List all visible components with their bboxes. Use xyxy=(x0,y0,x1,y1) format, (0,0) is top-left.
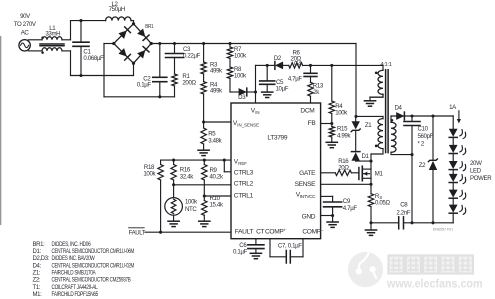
svg-text:D2,D3:: D2,D3: xyxy=(33,256,50,262)
svg-text:10µF: 10µF xyxy=(276,86,289,93)
svg-text:32.4k: 32.4k xyxy=(180,173,194,180)
svg-text:COMP–: COMP– xyxy=(302,228,323,236)
svg-text:100k: 100k xyxy=(143,171,156,178)
svg-text:GND: GND xyxy=(302,213,316,220)
svg-text:CENTRAL SEMICONDUCTOR CMR1U-06: CENTRAL SEMICONDUCTOR CMR1U-06M xyxy=(52,249,135,255)
svg-text:33mH: 33mH xyxy=(45,31,60,38)
svg-text:DIODES INC. BAV20W: DIODES INC. BAV20W xyxy=(52,256,96,262)
svg-text:LT3799: LT3799 xyxy=(267,135,287,142)
svg-text:CENTRAL SEMICONDUCTOR CMR1U-02: CENTRAL SEMICONDUCTOR CMR1U-02M xyxy=(52,263,135,269)
svg-text:100k: 100k xyxy=(335,110,348,117)
svg-text:Z2:: Z2: xyxy=(33,278,41,284)
svg-text:CT: CT xyxy=(256,228,264,235)
svg-text:M1: M1 xyxy=(375,171,384,178)
svg-text:15.4k: 15.4k xyxy=(210,201,224,208)
svg-text:FAIRCHILD SMBJ170A: FAIRCHILD SMBJ170A xyxy=(52,271,96,277)
svg-text:20W: 20W xyxy=(470,160,482,167)
svg-text:20Ω: 20Ω xyxy=(338,165,349,172)
svg-text:NTC: NTC xyxy=(185,206,197,213)
svg-text:100k: 100k xyxy=(234,53,247,60)
svg-text:DN6557 F01: DN6557 F01 xyxy=(433,228,453,232)
svg-text:TO 270V: TO 270V xyxy=(14,21,37,28)
svg-text:C8: C8 xyxy=(400,202,408,209)
svg-text:750µH: 750µH xyxy=(109,6,125,13)
svg-text:COMP+: COMP+ xyxy=(265,228,286,236)
svg-text:0.05Ω: 0.05Ω xyxy=(375,200,390,207)
svg-text:FAIRCHILD FDPF15N65: FAIRCHILD FDPF15N65 xyxy=(52,292,99,298)
svg-text:4.99k: 4.99k xyxy=(337,132,351,139)
svg-text:T1:: T1: xyxy=(33,285,41,291)
svg-text:40.2k: 40.2k xyxy=(210,174,224,181)
svg-text:4.7µF: 4.7µF xyxy=(343,205,358,212)
svg-text:D2: D2 xyxy=(274,55,282,62)
svg-text:COILCRAFT JA4429-AL: COILCRAFT JA4429-AL xyxy=(52,285,99,291)
svg-text:BR1:: BR1: xyxy=(33,242,46,248)
svg-text:* 2: * 2 xyxy=(418,141,425,148)
svg-text:0.1µF: 0.1µF xyxy=(137,82,152,89)
svg-text:Z2: Z2 xyxy=(419,162,426,169)
svg-text:CTRL2: CTRL2 xyxy=(234,181,254,188)
svg-text:CTRL1: CTRL1 xyxy=(234,192,254,199)
svg-text:R5: R5 xyxy=(208,130,216,137)
svg-text:LED: LED xyxy=(470,168,482,175)
svg-text:D3: D3 xyxy=(238,94,246,101)
svg-text:AC: AC xyxy=(21,29,30,36)
svg-text:C10: C10 xyxy=(418,126,429,133)
svg-text:Z1:: Z1: xyxy=(33,271,41,277)
svg-text:FAULT: FAULT xyxy=(129,230,146,236)
svg-text:CENTRAL SEMICONDUCTOR CMZ5937B: CENTRAL SEMICONDUCTOR CMZ5937B xyxy=(52,278,131,284)
svg-text:2.2nF: 2.2nF xyxy=(396,209,410,216)
svg-text:SENSE: SENSE xyxy=(295,181,317,188)
svg-text:GATE: GATE xyxy=(299,170,316,177)
svg-text:0.22µF: 0.22µF xyxy=(183,52,201,59)
svg-text:100k: 100k xyxy=(185,199,198,206)
svg-text:D1: D1 xyxy=(362,153,370,160)
svg-text:D4: D4 xyxy=(394,105,402,112)
svg-text:FB: FB xyxy=(308,120,317,127)
svg-text:90V: 90V xyxy=(20,13,31,20)
svg-text:0.1µF: 0.1µF xyxy=(233,249,248,256)
svg-text:499k: 499k xyxy=(210,68,223,75)
svg-text:499k: 499k xyxy=(210,88,223,95)
svg-text:0.068µF: 0.068µF xyxy=(83,55,104,62)
svg-text:CTRL3: CTRL3 xyxy=(234,170,254,177)
svg-text:560pF: 560pF xyxy=(418,133,434,140)
svg-text:M1:: M1: xyxy=(33,292,43,298)
svg-text:D4:: D4: xyxy=(33,263,42,269)
svg-text:C7, 0.1µF: C7, 0.1µF xyxy=(278,242,302,249)
svg-text:Z1: Z1 xyxy=(365,122,372,129)
svg-text:4.7µF: 4.7µF xyxy=(288,75,303,82)
svg-text:DIODES, INC. HD06: DIODES, INC. HD06 xyxy=(52,242,92,248)
svg-text:BR1: BR1 xyxy=(145,24,153,30)
svg-text:200Ω: 200Ω xyxy=(182,80,196,87)
svg-text:POWER: POWER xyxy=(470,175,492,182)
svg-text:DCM: DCM xyxy=(300,108,314,115)
svg-text:C4: C4 xyxy=(294,61,302,68)
svg-text:100k: 100k xyxy=(234,73,247,80)
svg-text:D1:: D1: xyxy=(33,249,42,255)
svg-text:FAULT: FAULT xyxy=(235,228,254,235)
svg-text:www.elecfans.com: www.elecfans.com xyxy=(386,279,482,291)
svg-text:3.48k: 3.48k xyxy=(208,138,222,145)
svg-text:4:1:1: 4:1:1 xyxy=(380,62,391,68)
